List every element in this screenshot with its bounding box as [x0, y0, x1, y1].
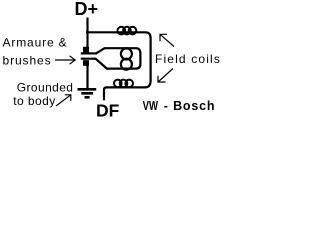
wire bottom horizontal from right vertical to DF junction: [106, 81, 151, 88]
wire DF terminal drop: [104, 87, 107, 100]
armature winding (figure-8): [121, 48, 132, 59]
wire diagonal from top bar to armature loop: [96, 48, 105, 54]
svg-text:VW: VW: [143, 99, 159, 113]
svg-text:- Bosch: - Bosch: [164, 99, 215, 113]
arrow to bottom field coil: [158, 69, 173, 83]
brush (bottom): [83, 60, 89, 66]
commutator bar top: [81, 52, 96, 54]
commutator bar bottom: [81, 58, 96, 60]
arrow from grounded label to ground symbol: [56, 95, 71, 106]
svg-text:Grounded: Grounded: [17, 81, 74, 95]
svg-text:brushes: brushes: [3, 53, 52, 67]
wire right vertical: [150, 38, 152, 81]
wire from bottom brush to ground: [86, 65, 88, 88]
svg-text:D+: D+: [75, 0, 99, 19]
svg-text:DF: DF: [96, 101, 120, 121]
arrow from brushes label to brushes: [55, 56, 75, 64]
svg-text:Field coils: Field coils: [155, 52, 220, 66]
arrow to top field coil: [160, 34, 174, 46]
brush (top): [83, 47, 89, 53]
field coil L1 (top): [118, 27, 137, 35]
wire from D+ terminal down to top brush: [86, 18, 88, 48]
svg-text:Armaure &: Armaure &: [3, 35, 68, 49]
field coil L2 (bottom): [114, 80, 133, 88]
armature loop outline: [104, 48, 140, 68]
wire top horizontal to field coil: [86, 32, 151, 38]
ground symbol: [78, 89, 97, 97]
wire diagonal from bottom bar to armature loop: [95, 58, 107, 69]
svg-text:to body: to body: [13, 94, 56, 108]
